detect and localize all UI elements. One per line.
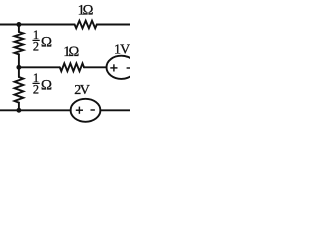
label 2V source: [74, 83, 90, 98]
node C junction dot bottom: [16, 108, 21, 113]
svg-text:V: V: [80, 83, 90, 98]
svg-text:2: 2: [33, 39, 39, 53]
label 1/2 ohm lower resistor: [33, 71, 52, 97]
voltage source V1 1V: [107, 56, 137, 79]
wire left branch upper lead: [18, 25, 20, 33]
node A junction dot top: [16, 22, 21, 27]
svg-text:V: V: [120, 43, 130, 58]
wire middle lead-in: [19, 66, 60, 68]
resistor R2 1/2 ohm upper-left: [15, 32, 24, 54]
minus sign of V2: [91, 109, 95, 111]
node B junction dot middle: [16, 65, 21, 70]
resistor R4 1ohm middle: [60, 63, 84, 71]
svg-text:2: 2: [33, 82, 39, 96]
svg-text:Ω: Ω: [41, 78, 52, 94]
label 1/2 ohm upper resistor: [33, 28, 52, 54]
wire top-left segment: [0, 24, 75, 26]
plus sign of V2: [76, 109, 83, 111]
wire bottom-left segment: [0, 109, 71, 111]
svg-text:Ω: Ω: [83, 3, 94, 19]
voltage source V2 2V: [71, 99, 101, 122]
wire left branch lower lead: [18, 103, 20, 111]
wire left branch middle lead: [18, 54, 20, 77]
label 1ohm middle resistor: [63, 44, 79, 60]
wire top-right segment: [97, 24, 130, 26]
svg-text:Ω: Ω: [69, 44, 80, 60]
resistor R3 1/2 ohm lower-left: [15, 77, 24, 103]
wire bottom-right segment: [100, 109, 130, 111]
label 1V source: [114, 43, 130, 58]
svg-text:Ω: Ω: [41, 35, 52, 51]
plus sign of V1: [110, 67, 117, 69]
wire middle to source: [84, 66, 107, 68]
resistor R1 1ohm top: [75, 21, 97, 29]
label 1ohm top resistor: [78, 3, 94, 19]
minus sign of V1: [127, 67, 131, 69]
